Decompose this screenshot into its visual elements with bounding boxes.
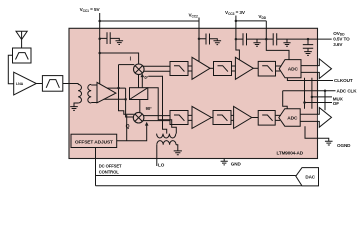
svg-text:Q: Q — [126, 124, 130, 130]
svg-text:ADC: ADC — [288, 67, 299, 73]
svg-text:ADC: ADC — [287, 115, 298, 121]
svg-text:OGND: OGND — [337, 143, 351, 148]
svg-text:GND: GND — [231, 161, 242, 166]
svg-text:LO: LO — [158, 162, 165, 167]
svg-text:OFFSET ADJUST: OFFSET ADJUST — [75, 140, 113, 146]
svg-text:LTM9004-AD: LTM9004-AD — [277, 150, 304, 155]
svg-text:3.6V: 3.6V — [333, 42, 343, 47]
svg-text:DC OFFSET: DC OFFSET — [99, 164, 122, 169]
svg-text:0°: 0° — [144, 75, 148, 80]
svg-text:CONTROL: CONTROL — [99, 169, 120, 174]
svg-text:LNA: LNA — [16, 82, 24, 86]
svg-text:90°: 90° — [146, 106, 152, 111]
svg-text:ADC CLK: ADC CLK — [337, 89, 358, 94]
svg-text:OF: OF — [333, 101, 339, 106]
svg-text:DAC: DAC — [305, 174, 315, 179]
svg-text:CLKOUT: CLKOUT — [334, 78, 353, 83]
svg-text:0.5V TO: 0.5V TO — [333, 37, 350, 42]
